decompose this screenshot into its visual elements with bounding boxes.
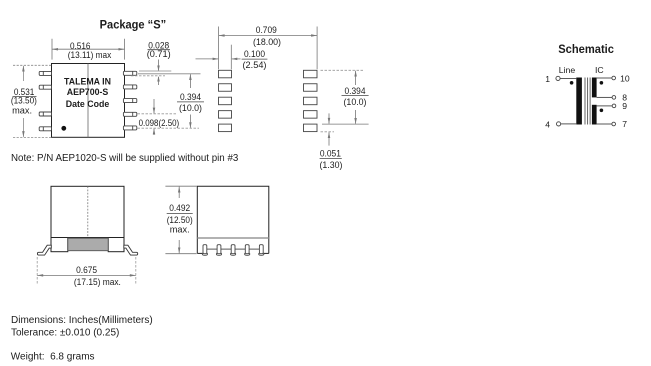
wire pin7 — [597, 123, 612, 125]
svg-text:(1.30): (1.30) — [320, 160, 343, 170]
terminal circle pin9 — [612, 104, 616, 108]
svg-text:1: 1 — [545, 74, 550, 84]
svg-text:Schematic: Schematic — [558, 42, 614, 56]
phase dot secondary top — [600, 81, 604, 85]
svg-text:(18.00): (18.00) — [253, 37, 281, 47]
svg-text:0.098(2.50): 0.098(2.50) — [139, 118, 180, 128]
dimension 0.394 (10.0) right of package — [189, 74, 191, 128]
footprint right pad column — [304, 70, 318, 131]
svg-text:Package “S”: Package “S” — [100, 18, 167, 31]
transformer secondary winding bottom — [592, 105, 597, 125]
dimension 0.492 (12.50) max. — [165, 185, 196, 187]
svg-text:Weight: 6.8 grams: Weight: 6.8 grams — [11, 352, 95, 363]
svg-text:Tolerance: ±0.010 (0.25): Tolerance: ±0.010 (0.25) — [11, 328, 119, 339]
svg-text:7: 7 — [622, 119, 627, 129]
svg-text:(17.15) max.: (17.15) max. — [74, 277, 121, 287]
phase dot secondary bottom — [600, 109, 604, 113]
svg-text:Date Code: Date Code — [66, 99, 110, 109]
gull wing lead right — [124, 245, 138, 255]
svg-text:max.: max. — [170, 225, 190, 235]
svg-text:(13.50): (13.50) — [11, 96, 37, 106]
phase dot primary — [570, 81, 574, 85]
package centerline — [87, 64, 89, 138]
svg-text:10: 10 — [620, 73, 630, 83]
svg-text:(2.54): (2.54) — [243, 60, 267, 70]
svg-text:Dimensions: Inches(Millimeters: Dimensions: Inches(Millimeters) — [11, 315, 153, 326]
side view B pins — [202, 245, 264, 256]
terminal circle pin8 — [612, 96, 616, 100]
wire pin1 — [560, 77, 576, 79]
right pins (6-10) — [123, 71, 136, 130]
side view B inner line — [197, 237, 268, 239]
svg-text:0.051: 0.051 — [320, 149, 341, 159]
wire pin4 — [561, 123, 577, 125]
wire pin10 — [597, 77, 612, 79]
svg-text:IC: IC — [595, 65, 604, 75]
svg-text:0.709: 0.709 — [256, 25, 277, 35]
wire pin9 — [597, 105, 613, 107]
svg-text:0.394: 0.394 — [180, 92, 201, 102]
left pins (1,2,4,5) — [39, 71, 51, 130]
svg-text:Note: P/N AEP1020-S will be su: Note: P/N AEP1020-S will be supplied wit… — [11, 153, 239, 164]
svg-text:(10.0): (10.0) — [179, 103, 202, 113]
transformer secondary winding top — [592, 78, 597, 98]
side view A flange left — [51, 238, 68, 252]
svg-text:max.: max. — [12, 106, 32, 116]
side view A gray core — [68, 238, 108, 251]
svg-text:(12.50): (12.50) — [167, 215, 193, 225]
dimension 0.394 (10.0) footprint — [321, 69, 365, 71]
svg-text:(13.11) max: (13.11) max — [68, 50, 112, 60]
dimension 0.100 (2.54) — [230, 45, 232, 70]
svg-text:Line: Line — [559, 65, 576, 75]
svg-text:9: 9 — [622, 101, 627, 111]
svg-text:0.394: 0.394 — [345, 86, 366, 96]
package top view body — [52, 64, 125, 138]
footprint left pad column — [219, 70, 232, 131]
pin1 reference lines — [139, 70, 171, 72]
side view A flange right — [108, 238, 124, 252]
terminal circle pin7 — [612, 122, 616, 126]
side view A centerline — [87, 186, 89, 237]
pin 1 dot — [61, 126, 66, 131]
terminal circle pin1 — [556, 76, 560, 80]
dimension 0.516 (13.11) max — [52, 39, 125, 60]
svg-text:4: 4 — [545, 120, 550, 130]
terminal circle pin10 — [612, 76, 616, 80]
wire pin8 — [597, 96, 613, 98]
transformer primary winding — [576, 78, 582, 125]
svg-text:0.675: 0.675 — [76, 265, 97, 275]
svg-text:0.492: 0.492 — [169, 203, 190, 213]
svg-text:TALEMA IN: TALEMA IN — [64, 77, 111, 87]
svg-text:(10.0): (10.0) — [344, 97, 367, 107]
side view A body — [51, 186, 124, 237]
dimension 0.709 (18.00) — [219, 27, 318, 70]
dimension 0.675 (17.15) max. — [37, 257, 136, 284]
transformer core lines — [584, 78, 586, 125]
gull wing lead left — [37, 245, 51, 255]
svg-text:AEP700-S: AEP700-S — [67, 87, 109, 97]
dimension 0.051 (1.30) — [321, 131, 335, 133]
dimension 0.531 (13.50) max. — [13, 65, 52, 137]
dimension 0.098(2.50) — [138, 113, 177, 115]
svg-text:(0.71): (0.71) — [147, 49, 171, 59]
side view B body — [197, 186, 268, 253]
terminal circle pin4 — [557, 122, 561, 126]
svg-text:0.100: 0.100 — [244, 49, 265, 59]
